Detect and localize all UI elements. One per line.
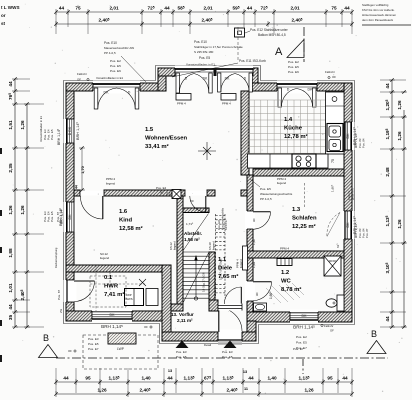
svg-text:Pos. E5: Pos. E5 <box>260 187 271 191</box>
svg-text:Pos. E4: Pos. E4 <box>156 186 167 190</box>
svg-text:44: 44 <box>164 6 170 11</box>
wall: right wall between kitchen and Schlafen windows <box>344 150 352 211</box>
filled triangle marker left <box>176 341 189 349</box>
svg-text:Wohnen/Essen: Wohnen/Essen <box>145 136 188 142</box>
svg-text:KS.12: KS.12 <box>169 242 173 250</box>
wall: entry bump left connector wall <box>162 321 171 341</box>
svg-text:DK: DK <box>110 313 116 317</box>
svg-text:Wasserleitungsschachts: Wasserleitungsschachts <box>260 192 293 196</box>
dimension chain right column 2 <box>403 110 405 327</box>
staircase lower flight <box>183 252 209 302</box>
svg-text:1,40: 1,40 <box>267 376 277 381</box>
svg-text:DK: DK <box>308 87 314 91</box>
svg-text:Mauerwerksschlitz: Mauerwerksschlitz <box>220 207 224 230</box>
wall: bump-out right vertical wall <box>250 68 258 91</box>
wall: bottom wall HWR to step <box>132 311 162 321</box>
washbasin <box>254 303 267 311</box>
svg-text:BRH 1,145: BRH 1,145 <box>57 128 61 145</box>
svg-text:Fallrohr: Fallrohr <box>77 72 87 76</box>
svg-text:BRH 1,145: BRH 1,145 <box>101 324 123 329</box>
room label: HWR <box>104 275 124 298</box>
svg-text:Fallrohr: Fallrohr <box>325 70 335 74</box>
window: HWR south window <box>92 309 132 330</box>
wall: HWR east wall <box>162 265 171 332</box>
svg-text:1,26: 1,26 <box>8 205 13 215</box>
svg-text:Stahlträger in 17,5er Poroton-: Stahlträger in 17,5er Poroton-Schale <box>194 45 243 49</box>
door: Vorflur inner door (threshold + swing into Diele) <box>218 287 242 311</box>
svg-text:12,78 m²: 12,78 m² <box>284 133 308 140</box>
wall: left wall lower (Kind window to HWR door) <box>66 232 74 280</box>
wall: stair east wall (to Diele) <box>209 252 215 304</box>
radiator Diele at spine (vertical) <box>243 246 248 270</box>
svg-text:KSV bis 4cm vor Außenk.: KSV bis 4cm vor Außenk. <box>362 8 395 12</box>
Abstell diagonal <box>184 214 209 251</box>
svg-text:Hintermauerwerk dämmen: Hintermauerwerk dämmen <box>362 13 396 17</box>
wall: left wall bottom stub <box>66 302 74 321</box>
svg-text:1,88: 1,88 <box>8 248 13 258</box>
wall: jamb block left of entry door <box>209 300 218 311</box>
wall: left wall mid (Wohnen window to Kind window) <box>66 143 74 202</box>
svg-text:BRH 1,145: BRH 1,145 <box>293 324 315 329</box>
svg-text:PPM 4: PPM 4 <box>177 102 186 106</box>
svg-text:t L WWS: t L WWS <box>1 5 20 10</box>
svg-text:1.2: 1.2 <box>281 270 290 276</box>
svg-text:13: 13 <box>243 370 247 374</box>
svg-text:Schlafen: Schlafen <box>292 216 317 222</box>
svg-text:7,41 m²: 7,41 m² <box>104 291 124 298</box>
svg-text:90: 90 <box>255 292 259 296</box>
wall: entry bump bottom wall left of door <box>162 332 218 341</box>
svg-text:Pos. E7: Pos. E7 <box>293 347 304 351</box>
svg-text:44: 44 <box>8 304 13 310</box>
svg-text:1,26: 1,26 <box>397 131 402 141</box>
svg-text:95: 95 <box>85 376 91 381</box>
kitchen right counter with sink <box>326 92 345 154</box>
svg-text:DK: DK <box>225 77 230 81</box>
dimension chain top row 2 <box>56 23 352 25</box>
wall: bump-out left vertical wall <box>158 68 166 91</box>
svg-text:44: 44 <box>167 376 173 381</box>
svg-text:Pos. E5: Pos. E5 <box>222 355 233 359</box>
svg-text:DK: DK <box>68 214 72 220</box>
svg-text:Pos. E5: Pos. E5 <box>296 341 307 345</box>
window: Wohnen west window D/DK <box>64 119 81 143</box>
svg-text:2,35: 2,35 <box>8 163 13 173</box>
svg-text:liegend: liegend <box>277 181 286 185</box>
svg-text:dem 4cm Paneeldreieck: dem 4cm Paneeldreieck <box>362 18 394 22</box>
svg-text:44: 44 <box>344 6 350 11</box>
svg-text:1.5: 1.5 <box>145 127 154 133</box>
svg-text:0.1: 0.1 <box>104 275 113 281</box>
svg-text:liegend: liegend <box>100 256 109 260</box>
door: Schlafen door (in spine wall) <box>245 211 271 229</box>
svg-text:D DK: D DK <box>68 126 72 135</box>
svg-text:DK: DK <box>203 77 208 81</box>
svg-text:2,19: 2,19 <box>166 192 173 196</box>
svg-text:2,01: 2,01 <box>109 6 119 11</box>
svg-text:1.6: 1.6 <box>119 209 128 215</box>
svg-text:1,26: 1,26 <box>304 388 314 393</box>
svg-text:44: 44 <box>342 376 348 381</box>
svg-text:75: 75 <box>75 6 81 11</box>
section line vertical stub bottom right <box>302 359 304 374</box>
svg-text:90: 90 <box>252 218 256 222</box>
svg-text:Pos. E3: Pos. E3 <box>222 350 233 354</box>
svg-text:75: 75 <box>331 159 335 163</box>
svg-text:1,26: 1,26 <box>397 100 402 110</box>
dimension chain left column 2 <box>26 104 28 327</box>
svg-text:Pos. 84: Pos. 84 <box>361 138 365 148</box>
svg-text:DK: DK <box>302 314 308 318</box>
door: terrace double doors left pair (bump-out) <box>175 66 214 94</box>
top-left corner cropped text <box>1 5 20 26</box>
section line A vertical dash-dot <box>303 27 305 62</box>
svg-text:44: 44 <box>63 376 69 381</box>
porch dashed outline bottom-left <box>83 335 158 369</box>
edge artifacts left border <box>0 148 2 362</box>
svg-text:Pos. E7: Pos. E7 <box>88 347 99 351</box>
wall: top wall right of Wohnen french door <box>140 83 162 91</box>
svg-text:WC: WC <box>281 279 292 285</box>
svg-text:13.: 13. <box>171 312 177 317</box>
wall: stair block west wall <box>177 196 183 304</box>
svg-text:KS.18: KS.18 <box>208 242 212 250</box>
wall: spine wall above Schlafen door <box>247 175 253 211</box>
svg-text:or: or <box>1 13 6 18</box>
svg-text:WWS: WWS <box>125 297 132 301</box>
wall: entry bump right connector wall <box>247 321 256 332</box>
svg-text:OF: OF <box>332 75 336 79</box>
svg-text:44: 44 <box>75 185 79 189</box>
svg-text:Pos. E11 ISO-Korb: Pos. E11 ISO-Korb <box>239 59 266 63</box>
svg-text:1.3: 1.3 <box>292 207 301 213</box>
svg-text:A: A <box>275 46 283 58</box>
svg-text:Mauerwerksschlitz AW: Mauerwerksschlitz AW <box>104 46 134 50</box>
svg-text:LWP: LWP <box>117 347 125 351</box>
svg-text:Abstellr.: Abstellr. <box>184 231 202 236</box>
svg-text:PPM 4: PPM 4 <box>106 177 115 181</box>
svg-text:Pos. E5: Pos. E5 <box>176 355 187 359</box>
sink unit double basin <box>327 124 343 152</box>
svg-text:Pos. E3: Pos. E3 <box>176 350 187 354</box>
wall: Wohnen/Kind divider left stub <box>74 190 80 196</box>
door: terrace double doors right pair (bump-out) <box>217 66 254 93</box>
kitchen bottom counter with cooktop <box>248 154 329 168</box>
svg-text:DK: DK <box>346 133 350 139</box>
svg-text:1,69: 1,69 <box>252 262 256 268</box>
svg-text:1,26: 1,26 <box>20 205 25 215</box>
svg-text:OF: OF <box>77 78 81 82</box>
wall: top wall kitchen right of door <box>317 83 352 91</box>
svg-text:PPM 4: PPM 4 <box>280 247 289 251</box>
svg-text:7,65 m²: 7,65 m² <box>218 273 238 280</box>
svg-text:Pos. E8: Pos. E8 <box>217 220 221 230</box>
dashed axis line in Schlafen <box>304 183 306 207</box>
svg-text:PPM 4: PPM 4 <box>222 102 231 106</box>
svg-text:8,78 m²: 8,78 m² <box>281 286 301 293</box>
wall: connector wall below stairs <box>171 304 183 311</box>
room label: Diele <box>218 257 238 280</box>
svg-text:Vorsatzrollladen in E1: Vorsatzrollladen in E1 <box>96 76 123 80</box>
svg-text:PP 4-0,5: PP 4-0,5 <box>260 197 272 201</box>
svg-text:Küche: Küche <box>284 126 303 132</box>
wall: left wall upper (to Wohnen window) <box>66 83 74 119</box>
radiator below bump doors right <box>221 94 236 101</box>
wall: bottom wall right of WC window <box>318 312 352 322</box>
stair walk line with arrow <box>194 297 197 300</box>
dimension chain bottom row 1 <box>56 381 352 383</box>
door: WC door (in spine wall) <box>245 281 272 301</box>
svg-text:Vorsatzrollladen in E1: Vorsatzrollladen in E1 <box>186 63 215 67</box>
svg-text:liegend: liegend <box>239 259 243 268</box>
svg-text:1.4: 1.4 <box>284 117 293 123</box>
svg-text:Pos. E5: Pos. E5 <box>50 211 54 222</box>
extension lines right <box>380 80 406 327</box>
svg-text:44: 44 <box>385 83 390 89</box>
svg-text:OF: OF <box>330 329 334 333</box>
window: WC south window DK <box>290 310 318 330</box>
svg-text:Fallrohr: Fallrohr <box>324 324 334 328</box>
room label: WC <box>281 270 301 293</box>
wall: entry bump bottom wall right of door <box>242 332 256 341</box>
svg-text:Pos. E2: Pos. E2 <box>110 59 121 63</box>
room label: Kind <box>119 209 143 232</box>
door: stair hall door (divider at landing) <box>185 190 207 212</box>
svg-text:1,70: 1,70 <box>81 166 85 173</box>
room label: Abstellr <box>184 231 202 242</box>
svg-text:75: 75 <box>331 6 337 11</box>
svg-text:44: 44 <box>8 81 13 87</box>
svg-text:2,11 m²: 2,11 m² <box>177 318 193 323</box>
room label: Wohnen/Essen <box>145 127 188 150</box>
svg-text:1,40: 1,40 <box>141 376 151 381</box>
window: Kitchen east window <box>342 122 358 150</box>
kitchen floor tile grid <box>248 100 328 154</box>
window: Kind west window DK <box>58 202 77 232</box>
wall: spine wall: kitchen west <box>241 91 249 175</box>
svg-text:1,51: 1,51 <box>8 120 13 130</box>
svg-text:19 Stg 17,6/28: 19 Stg 17,6/28 <box>202 272 206 292</box>
staircase upper flight (dashed) in Diele <box>216 214 226 298</box>
LWP unit outside <box>108 333 136 344</box>
door: main entry door in bump bottom wall <box>218 308 242 344</box>
svg-text:90: 90 <box>190 199 194 203</box>
wall: Abstell north wall <box>183 208 209 213</box>
svg-text:Pos. E12 Stahlstütze unter: Pos. E12 Stahlstütze unter <box>250 28 289 32</box>
svg-text:Kind: Kind <box>119 218 132 224</box>
svg-text:Pos. 87: Pos. 87 <box>57 289 61 300</box>
svg-text:33,41 m²: 33,41 m² <box>145 143 169 150</box>
washer / heatpump boxes LWP WWS <box>125 289 144 306</box>
svg-text:Pos. E3: Pos. E3 <box>88 337 99 341</box>
outer plaster contour line <box>64 66 355 344</box>
dimension chain top row 1 <box>56 11 352 13</box>
dimension chain bottom row 2 <box>56 393 352 395</box>
svg-text:Diele: Diele <box>218 266 233 272</box>
svg-text:Pos. E5: Pos. E5 <box>110 64 121 68</box>
svg-text:Pos. E2: Pos. E2 <box>288 60 299 64</box>
dimension chain left column 1 <box>14 79 16 327</box>
svg-text:DK: DK <box>104 90 110 94</box>
door: kitchen balcony door D/DK <box>277 81 317 108</box>
svg-text:HWR: HWR <box>104 284 119 290</box>
wall: Kitchen/Schlafen wall <box>253 169 344 176</box>
section line B-B horizontal dash-dot <box>56 357 388 359</box>
floor drain cross HWR <box>139 279 146 286</box>
wall: bottom wall right of entry bump left of WC window <box>247 312 290 322</box>
filled triangle marker right <box>224 341 237 349</box>
wall: right wall above kitchen window <box>344 83 352 122</box>
svg-text:Pos. E6: Pos. E6 <box>110 69 121 73</box>
svg-text:1,26: 1,26 <box>20 120 25 130</box>
wall: spine wall below WC door <box>247 301 253 312</box>
extension lines bottom <box>56 368 352 393</box>
bump-out top wall center mullion <box>214 68 217 76</box>
door: Kind room door (in Wohnen/Kind divider) <box>80 190 104 219</box>
Pos E12 Stahlstuetze + box symbol <box>235 28 245 37</box>
svg-text:90: 90 <box>160 191 164 195</box>
living centre cross <box>198 142 216 160</box>
svg-text:Balkon MSH 80-4,5: Balkon MSH 80-4,5 <box>258 33 286 37</box>
wall: bump-out top wall left jamb <box>158 68 175 76</box>
WC tile hatch <box>266 283 304 303</box>
svg-text:2%: 2% <box>59 308 63 313</box>
room label: Schlafen <box>292 207 317 230</box>
svg-text:13: 13 <box>168 369 172 373</box>
svg-text:Pos. E10: Pos. E10 <box>104 41 117 45</box>
svg-text:1,01: 1,01 <box>8 283 13 293</box>
wall: spine wall between doors <box>247 229 253 281</box>
wall: Wohnen/Kind divider main <box>104 190 185 196</box>
radiator at WC north wall <box>277 259 292 266</box>
svg-text:Pos. E5: Pos. E5 <box>88 342 99 346</box>
entry door threshold lines <box>218 341 242 343</box>
shower <box>324 256 341 276</box>
svg-text:Deckenversprung: Deckenversprung <box>54 247 58 268</box>
svg-text:1,58 m²: 1,58 m² <box>184 237 200 242</box>
wall: divider stub at spine <box>241 190 249 196</box>
wall: right wall below Schlafen window <box>344 239 352 322</box>
svg-text:BRH 1,145: BRH 1,145 <box>60 208 64 224</box>
svg-text:Vorflur: Vorflur <box>179 312 194 317</box>
svg-text:1,60: 1,60 <box>252 239 256 245</box>
toilet <box>337 295 344 311</box>
svg-text:PP 4-0,5: PP 4-0,5 <box>104 51 116 55</box>
room label: K&#252;che <box>284 117 308 140</box>
svg-text:95: 95 <box>327 376 333 381</box>
svg-text:B: B <box>43 333 49 343</box>
svg-text:Vorsatzrollladen in E1: Vorsatzrollladen in E1 <box>39 116 43 142</box>
wall: Kind/HWR divider wall <box>66 265 171 272</box>
svg-text:11: 11 <box>244 387 248 391</box>
svg-text:OF: OF <box>68 349 72 353</box>
svg-text:Pos. E5: Pos. E5 <box>288 65 299 69</box>
svg-text:Pos. E5: Pos. E5 <box>50 129 54 140</box>
svg-text:liegend: liegend <box>211 241 215 250</box>
svg-text:1,26: 1,26 <box>97 388 107 393</box>
svg-text:2,01: 2,01 <box>203 6 213 11</box>
svg-text:44: 44 <box>59 6 65 11</box>
svg-text:DK: DK <box>346 222 350 228</box>
Schlafen window swing arc <box>327 213 340 237</box>
wall: bottom wall left of HWR window <box>66 311 92 321</box>
svg-text:1.1: 1.1 <box>218 257 227 263</box>
extension lines left <box>16 79 44 327</box>
svg-text:PPM 4: PPM 4 <box>236 259 240 268</box>
svg-text:liegend: liegend <box>172 241 176 250</box>
svg-text:90/90: 90/90 <box>329 259 337 263</box>
svg-text:2,48: 2,48 <box>385 167 390 177</box>
svg-text:S 235 IPE 180: S 235 IPE 180 <box>194 50 214 54</box>
svg-text:44: 44 <box>247 6 253 11</box>
svg-text:35: 35 <box>8 315 13 321</box>
svg-text:Pos. E10: Pos. E10 <box>194 40 207 44</box>
svg-text:Detail: Detail <box>204 343 212 347</box>
svg-text:2,01: 2,01 <box>290 6 300 11</box>
dimension chain right column 1 <box>391 80 393 327</box>
svg-text:44: 44 <box>385 316 390 322</box>
svg-text:liegend: liegend <box>106 182 115 186</box>
svg-text:1,26: 1,26 <box>397 219 402 229</box>
wall: bump-out top wall right jamb <box>253 68 258 76</box>
room label: Vorflur <box>171 312 194 323</box>
svg-text:Pos. E5: Pos. E5 <box>199 56 210 60</box>
svg-text:BRH 1,145: BRH 1,145 <box>75 121 80 139</box>
svg-text:D: D <box>287 87 290 91</box>
svg-text:43-15-17: 43-15-17 <box>224 219 228 230</box>
door: HWR exterior door in left wall <box>64 280 95 302</box>
svg-text:44: 44 <box>248 376 254 381</box>
svg-text:gedämmt: gedämmt <box>350 188 354 200</box>
svg-text:Stellfugen vollflächig: Stellfugen vollflächig <box>362 3 389 7</box>
door: Wohnen french doors (top-left, D + DK) <box>93 81 140 110</box>
svg-text:Pos. E6: Pos. E6 <box>288 70 299 74</box>
extension lines top <box>56 13 352 34</box>
svg-text:Pos. 87: Pos. 87 <box>365 228 369 238</box>
svg-text:st: st <box>1 21 6 26</box>
radiator below bump doors left <box>176 94 191 101</box>
wall: divider stub at stair landing <box>207 190 215 196</box>
HWR dashed installation zone <box>90 276 126 307</box>
svg-text:D: D <box>128 90 131 94</box>
svg-text:12,58 m²: 12,58 m² <box>119 225 143 232</box>
svg-text:B: B <box>371 329 377 339</box>
window: Schlafen east window DK <box>342 211 358 239</box>
svg-text:Pos. E2: Pos. E2 <box>296 335 307 339</box>
svg-text:12,25 m²: 12,25 m² <box>292 223 316 230</box>
wall: top wall left of Wohnen french door <box>66 83 93 91</box>
wall: Schlafen/WC wall <box>247 251 344 258</box>
svg-text:OF: OF <box>144 325 148 329</box>
wall: top wall kitchen left of door <box>250 83 277 91</box>
